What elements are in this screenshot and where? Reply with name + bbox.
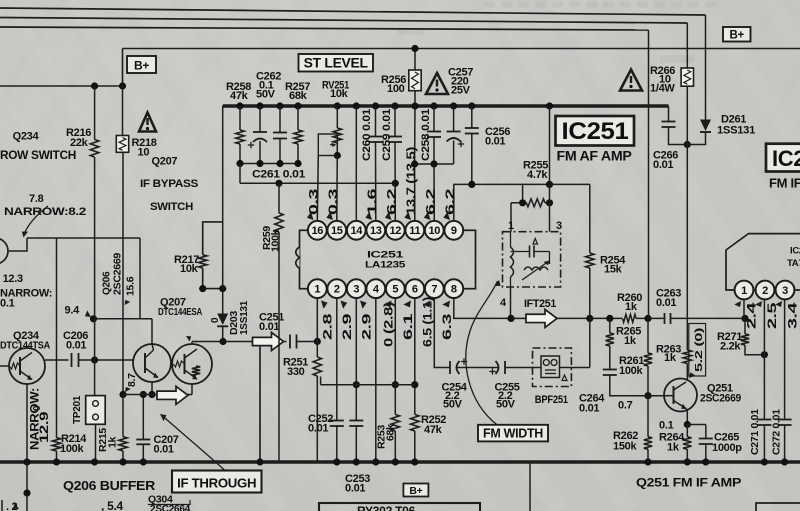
svg-text:3: 3 (353, 284, 359, 296)
node dot C206 junction (91, 356, 98, 363)
node dot 9.4 collector (90, 315, 97, 322)
svg-text:6.2: 6.2 (424, 188, 438, 215)
wire signal y341.5 (192, 341, 287, 343)
svg-text:0.7: 0.7 (618, 400, 633, 412)
text ST LEVEL box (299, 54, 374, 72)
svg-text:6.1: 6.1 (401, 313, 415, 340)
pin 8 of IC251 (444, 279, 463, 298)
svg-text:DTC144ESA: DTC144ESA (158, 306, 203, 318)
capacitor C265 1000p (705, 425, 707, 439)
svg-text:100k: 100k (619, 365, 643, 377)
svg-text:IC2: IC2 (790, 246, 800, 257)
warning triangle (left) (139, 113, 156, 132)
resistor R263 1k (683, 350, 691, 364)
svg-text:2SC2669: 2SC2669 (113, 252, 124, 295)
svg-text:C261 0.01: C261 0.01 (252, 169, 305, 181)
svg-text:15k: 15k (604, 264, 623, 276)
wire curved arrow FM WIDTH to IFT (466, 281, 498, 425)
capacitor C252 0.01 on pin2 line (336, 298, 338, 421)
svg-text:C260 0.01: C260 0.01 (361, 109, 373, 161)
node dot BPF branch (586, 315, 593, 322)
wire pin7 to C254 (434, 298, 449, 368)
svg-text:3: 3 (782, 285, 788, 297)
svg-text:0.3: 0.3 (326, 188, 340, 215)
svg-text:C272 0.01: C272 0.01 (771, 409, 783, 455)
resistor R265 1k (609, 318, 611, 333)
resistor R257 68k (294, 102, 301, 109)
resistor R264 1k (683, 437, 691, 449)
resistor R216 22k (94, 86, 96, 140)
resistor R266 10 1/4W (boxed) (686, 23, 688, 68)
resistor R256 100 (boxed) riser (414, 49, 416, 71)
node dot D203 junction (219, 338, 226, 345)
svg-text:10: 10 (428, 225, 440, 237)
svg-text:1SS131: 1SS131 (717, 125, 755, 137)
wire Q206 collector riser (151, 319, 153, 344)
resistor R254 15k (586, 253, 594, 268)
pin 1 of IC251 (308, 279, 327, 298)
svg-text:1SS131: 1SS131 (238, 301, 250, 335)
wire pin10 riser (433, 164, 435, 221)
svg-text:2: 2 (334, 284, 340, 296)
wire curved arrow IF THROUGH to TP201 (162, 416, 225, 471)
wire y86 horizontal from left edge (0, 85, 123, 87)
node dot R261 branch (644, 315, 651, 322)
pin 14 of IC251 (347, 221, 366, 240)
text 5.2 (0) boxed voltage (689, 324, 706, 377)
pin 16 of IC251 (308, 221, 327, 240)
svg-text:RY302 T06: RY302 T06 (357, 504, 416, 511)
wire bottom right corner box (756, 503, 800, 511)
wire TP201 to ground (95, 424, 97, 462)
node dot R251 junction (314, 338, 321, 345)
svg-text:FM WIDTH: FM WIDTH (483, 427, 543, 441)
capacitor C255 2.2 50V (496, 361, 499, 374)
wire rail y184.4 (pin9) (455, 183, 550, 185)
pin 3 of IC251 (347, 279, 366, 298)
transistor Q251 2SC2669 (664, 379, 697, 412)
svg-text:5: 5 (392, 284, 398, 296)
svg-text:1.6: 1.6 (365, 188, 379, 215)
capacitor C266 0.01 (668, 106, 670, 122)
pin 9 of IC251 (444, 221, 463, 240)
svg-text:ST LEVEL: ST LEVEL (304, 56, 368, 71)
capacitor C263 0.01 (series) (664, 313, 666, 324)
wire rail y384.7 (321, 384, 415, 386)
svg-text:SWITCH: SWITCH (150, 201, 193, 213)
wire Q251 collector feed (686, 145, 688, 351)
resistor R253 68k on pin5 line (394, 298, 396, 415)
svg-text:BPF251: BPF251 (535, 394, 568, 406)
svg-text:B+: B+ (134, 59, 149, 73)
svg-text:C271 0.01: C271 0.01 (749, 409, 761, 455)
svg-text:0.01: 0.01 (485, 136, 505, 148)
svg-text:1k: 1k (107, 436, 119, 448)
wire R216 node down to TP201 (94, 157, 96, 396)
svg-text:IF BYPASS: IF BYPASS (140, 178, 198, 190)
resistor R260 1k (series) (623, 314, 637, 322)
pin 15 of IC251 (327, 221, 346, 240)
warning triangle (right) (620, 70, 642, 91)
wire riser x140 down to collector wire (139, 238, 141, 319)
wire shunt x260 to ground (259, 342, 261, 463)
svg-text:100k: 100k (60, 443, 84, 455)
wire top border line 2 (0, 18, 687, 24)
capacitor C261 0.01 (276, 102, 283, 109)
svg-text:5.2 (0): 5.2 (0) (693, 328, 705, 372)
svg-text:14: 14 (350, 225, 363, 237)
svg-text:1: 1 (741, 285, 747, 297)
wire pin8 signal y318.4 (454, 298, 511, 319)
svg-text:4.7k: 4.7k (527, 169, 548, 181)
svg-text:25V: 25V (451, 85, 471, 97)
svg-text:47k: 47k (424, 424, 443, 436)
svg-text:9: 9 (451, 225, 457, 237)
svg-text:6.2: 6.2 (443, 188, 457, 215)
wire Q207 collector up (191, 342, 193, 345)
svg-text:IC251: IC251 (562, 118, 629, 145)
wire rail extension to R254 (550, 183, 590, 185)
svg-text:0.01: 0.01 (154, 444, 174, 456)
svg-text:15: 15 (331, 225, 343, 237)
wire Q206 emitter down (151, 382, 153, 395)
wire bottom left stub (26, 462, 28, 511)
pin 4 of IC251 (366, 279, 385, 298)
capacitor C264 0.01 (603, 369, 617, 371)
text RY302 box bottom (319, 503, 480, 511)
resistor R262 150k (647, 396, 649, 437)
wire IFT251 secondary down (510, 287, 512, 318)
node junction dot x122.5 y86 (119, 82, 126, 89)
svg-text:6.2: 6.2 (385, 188, 399, 215)
svg-text:IFT251: IFT251 (524, 298, 556, 310)
triangle marker inside IFT251 (533, 239, 538, 245)
svg-text:0: 0 (210, 317, 221, 323)
svg-text:1: 1 (508, 220, 514, 232)
svg-text:2.9: 2.9 (340, 313, 354, 340)
svg-text:3: 3 (556, 220, 562, 232)
svg-text:50V: 50V (256, 89, 276, 101)
svg-text:12.9: 12.9 (39, 412, 51, 443)
svg-text:FM IF: FM IF (769, 176, 800, 191)
svg-text:LA1235: LA1235 (365, 260, 406, 271)
warning triangle (middle) (426, 73, 448, 94)
svg-text:100k: 100k (270, 229, 282, 252)
capacitor C258 0.01 (430, 102, 437, 109)
node dot C256 junction (468, 181, 475, 188)
svg-text:10k: 10k (330, 88, 349, 100)
resistor R261 100k (647, 318, 649, 353)
svg-text:2.8: 2.8 (321, 313, 335, 340)
transformer IFT251 secondary coil with arrow (524, 267, 548, 270)
transformer IFT251 primary coil (511, 247, 514, 277)
capacitor C272 0.01 on pin3 line (784, 299, 786, 420)
capacitor C207 0.01 (142, 395, 144, 440)
node dot rail junction pin12 (392, 180, 399, 187)
capacitor C251 0.01 (289, 335, 291, 349)
power B+ label box (bottom) (403, 484, 428, 497)
svg-text:Q206: Q206 (102, 271, 113, 295)
capacitor C259 0.01 (391, 102, 398, 109)
wire B+ bus y106 (thick) (223, 104, 669, 108)
resistor R255 4.7k (522, 184, 524, 202)
wire RV251 to pin15 (336, 156, 339, 222)
svg-text:16: 16 (311, 225, 323, 237)
IC U1 IC251 LA1235 body (300, 230, 476, 288)
capacitor C256 0.01 (468, 102, 475, 109)
capacitor C260 0.01 (372, 102, 379, 109)
svg-text:150k: 150k (613, 441, 637, 453)
node dot R259 tap (275, 180, 282, 187)
svg-text:TP201: TP201 (71, 396, 83, 424)
wire B+ rail y48 (123, 48, 800, 50)
wire box to pin16 (317, 156, 318, 222)
resistor R271 2.2k (744, 318, 746, 334)
svg-text:B+: B+ (729, 30, 744, 42)
wire rail y183.3 (C261 rail) (240, 182, 395, 184)
potentiometer RV251 10k (334, 102, 341, 109)
svg-text:, 5.4: , 5.4 (101, 499, 123, 511)
resistor R214 100k (52, 438, 60, 451)
pin 13 of IC251 (366, 221, 385, 240)
svg-text:330: 330 (287, 366, 305, 378)
diode D261 1SS131 (705, 15, 707, 120)
transistor Q206 2SC2669 (133, 344, 171, 382)
wire Q251 emitter (686, 409, 687, 425)
wire pin9 riser (454, 184, 455, 221)
arrow hollow (left) (157, 386, 188, 404)
svg-text:1: 1 (314, 284, 320, 296)
svg-text:11: 11 (409, 225, 420, 237)
node B+ rail corner down at x122.5 (122, 49, 124, 87)
svg-text:15.6: 15.6 (125, 276, 137, 296)
wire emitter to C265 (687, 424, 706, 426)
wire section divider x530 (529, 462, 531, 511)
resistor R215 1k (122, 152, 124, 394)
filter BPF251 element (541, 356, 560, 378)
svg-text:0.1: 0.1 (659, 420, 674, 432)
transformer IFT251 box (503, 232, 561, 287)
wire riser x589.8 R254 (589, 318, 591, 367)
pin 5 of IC251 (386, 279, 405, 298)
svg-text:9.4: 9.4 (65, 305, 81, 317)
wire pin11 riser from R256 (414, 106, 416, 164)
text FM WIDTH box (478, 425, 548, 442)
transistor Q207 DTC144ESA (172, 344, 212, 384)
wire base node to Q206 (95, 359, 133, 361)
svg-text:B+: B+ (409, 485, 422, 497)
wire pin1 riser (743, 299, 745, 319)
svg-text:10k: 10k (180, 263, 199, 275)
svg-text:Q251 FM IF AMP: Q251 FM IF AMP (636, 476, 741, 490)
filter BPF251 box (533, 348, 572, 387)
svg-text:7.8: 7.8 (29, 193, 44, 205)
capacitor C254 2.2 50V (449, 361, 451, 374)
svg-text:0.01: 0.01 (259, 321, 279, 333)
svg-text:2.9: 2.9 (360, 313, 374, 340)
wire pin1 riser (316, 298, 318, 342)
svg-text:13: 13 (370, 225, 382, 237)
svg-text:Q206 BUFFER: Q206 BUFFER (63, 478, 156, 493)
svg-text:IC25: IC25 (772, 146, 800, 171)
wire supply rail y164 (415, 163, 454, 165)
node dot pin1 junction (741, 315, 748, 322)
svg-text:1/4W: 1/4W (650, 83, 675, 95)
svg-text:1k: 1k (664, 352, 677, 364)
svg-text:22k: 22k (70, 137, 89, 149)
wire Q234 emitter to ground (26, 384, 28, 462)
svg-text:68k: 68k (385, 424, 397, 441)
node dot supply junction (684, 141, 691, 148)
wire long riser x648 from border (648, 30, 650, 318)
resistor R252 47k on pin6 line (414, 298, 416, 415)
pin 2 of right IC (756, 281, 775, 300)
svg-text:1k: 1k (625, 301, 638, 313)
svg-text:2.2k: 2.2k (720, 341, 741, 353)
svg-text:100: 100 (387, 83, 405, 95)
svg-text:6: 6 (412, 284, 418, 296)
svg-text:50V: 50V (496, 399, 516, 411)
svg-text:FM AF AMP: FM AF AMP (557, 149, 632, 164)
svg-text:TA73: TA73 (787, 258, 800, 269)
wire IFT pin1 riser (510, 203, 512, 232)
svg-text:50V: 50V (443, 399, 463, 411)
wire y238 horizontal (27, 237, 140, 239)
wire ground bus (thick) (0, 460, 800, 464)
svg-text:IF THROUGH: IF THROUGH (177, 477, 256, 491)
svg-text:0.01: 0.01 (345, 483, 365, 495)
capacitor C257 220 25V electrolytic (450, 102, 457, 109)
wire Q234 base stub (0, 365, 9, 367)
svg-text:Q234: Q234 (13, 131, 40, 143)
wire top border line 1 (0, 8, 706, 15)
IC U2 right chip body (726, 234, 800, 290)
svg-text:DTC144TSA: DTC144TSA (0, 340, 51, 352)
pin 10 of IC251 (425, 221, 444, 240)
test point TP201 (86, 396, 106, 425)
node dot R265 branch (606, 315, 613, 322)
capacitor C262 electrolytic (256, 102, 263, 109)
pin 11 of IC251 (405, 221, 424, 240)
svg-text:ROW SWITCH: ROW SWITCH (0, 150, 76, 162)
svg-text:0.01: 0.01 (579, 403, 599, 415)
wire base wire y395.7 (648, 395, 665, 397)
diode D203 1SS131 (222, 106, 224, 314)
svg-text:1k: 1k (667, 442, 680, 454)
wire top border line 3 (0, 27, 649, 30)
transistor cut at left edge (0, 238, 8, 264)
svg-text:68k: 68k (289, 90, 308, 102)
svg-text:0.01: 0.01 (653, 159, 673, 171)
wire IFT pin3 riser (B+ feed) (546, 102, 553, 109)
wire Q251 collector (686, 381, 687, 382)
svg-text:2: 2 (762, 285, 768, 297)
node ground dots (23, 458, 30, 465)
svg-text:6.3: 6.3 (440, 313, 454, 340)
svg-text:C258 0.01: C258 0.01 (420, 109, 432, 161)
wire rail y163.5 (240, 163, 298, 165)
resistor R251 330 (316, 342, 318, 358)
svg-text:13.7 (13.5): 13.7 (13.5) (404, 147, 418, 215)
node dot 8.7 emitter junction (119, 391, 126, 398)
resistor R218 10 (boxed) (122, 86, 124, 136)
arrow hollow (IFT output) (526, 309, 557, 327)
svg-text:Q207: Q207 (152, 156, 178, 168)
wire emitter output y394.5 (123, 394, 192, 396)
text .2 bottom left (1, 500, 3, 511)
triangle marker BPF (562, 375, 567, 381)
text IC2 label box (cut at edge) (766, 144, 800, 172)
svg-text:3.4: 3.4 (786, 302, 800, 329)
wire pin14 riser (353, 102, 360, 109)
svg-text:7: 7 (431, 284, 437, 296)
wire link rail163 to rail183 (239, 164, 241, 184)
text IF THROUGH box (172, 471, 262, 493)
pin 3 of right IC (776, 281, 795, 300)
wire R217 bottom link (203, 288, 223, 290)
wire BPF to riser (560, 367, 590, 369)
pin 12 of IC251 (386, 221, 405, 240)
svg-text:8: 8 (451, 284, 457, 296)
svg-text:0 (2.8): 0 (2.8) (382, 302, 396, 347)
wire Q206 collector node y318.8 (94, 318, 153, 320)
svg-text:2SC2669: 2SC2669 (700, 393, 741, 405)
capacitor C253 0.01 on pin3 line (355, 298, 357, 421)
svg-text:C259 0.01: C259 0.01 (381, 109, 393, 161)
svg-text:0.1: 0.1 (0, 298, 15, 310)
wire curved arrow to narrow line (24, 206, 48, 234)
svg-text:10: 10 (138, 147, 150, 159)
node dot rail-R254 junction (546, 181, 553, 188)
arrow hollow (signal) (253, 333, 284, 351)
svg-text:12.3: 12.3 (3, 273, 23, 285)
svg-text:47k: 47k (230, 90, 249, 102)
svg-text:12: 12 (389, 225, 401, 237)
resistor R217 10k (203, 222, 223, 255)
pin 1 of right IC (735, 281, 754, 300)
svg-text:0.01: 0.01 (66, 340, 86, 352)
wire pin4 to ground (375, 298, 377, 463)
wire riser x56.5 to R214 (56, 238, 58, 438)
wire Q207 emitter down (191, 384, 193, 395)
resistor R259 100k (to ground) (278, 183, 280, 213)
svg-text:0.01: 0.01 (308, 423, 328, 435)
capacitor C271 0.01 on pin2 line (763, 299, 765, 420)
svg-text:0.01: 0.01 (656, 297, 676, 309)
node dot base junction (644, 392, 651, 399)
capacitor inside IFT251 (511, 251, 530, 253)
power B+ label box (left) (127, 56, 156, 73)
capacitor C206 0.01 (45, 359, 69, 361)
svg-text:2.5: 2.5 (765, 302, 779, 329)
pin 2 of IC251 (327, 279, 346, 298)
transistor Q234 DTC144TSA (9, 348, 45, 384)
resistor R258 47k (236, 102, 243, 109)
text IC251 label box (556, 116, 635, 146)
power B+ label box (top right) (723, 27, 751, 42)
pin 7 of IC251 (425, 279, 444, 298)
node junction dot x94.6 y86 (91, 82, 98, 89)
svg-text:0.3: 0.3 (307, 188, 321, 215)
svg-text:1000p: 1000p (712, 442, 742, 454)
svg-text:1k: 1k (624, 335, 637, 347)
wire stub to cut transistor (9, 238, 27, 251)
pin 6 of IC251 (405, 279, 424, 298)
